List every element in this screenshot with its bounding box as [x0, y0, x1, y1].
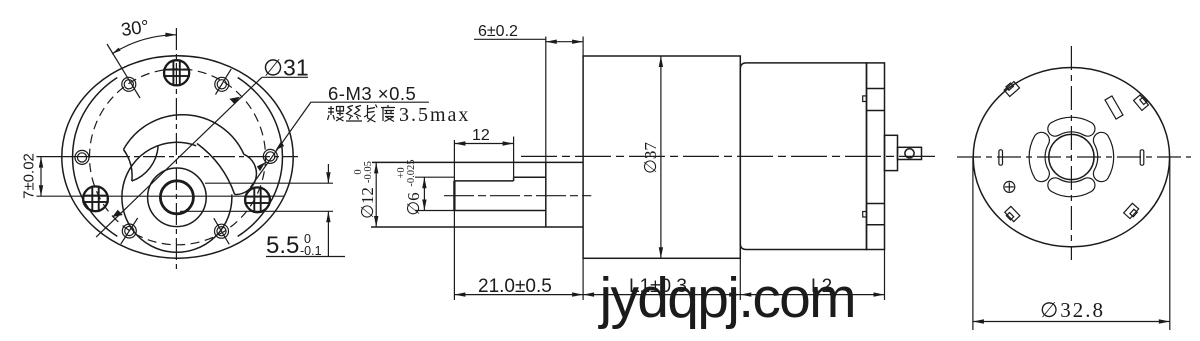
side slot right — [1140, 150, 1144, 165]
hanzi LUO (screw) drawn strokes — [328, 106, 344, 121]
motor end cap — [867, 63, 885, 250]
output shaft D-flat profile — [454, 180, 513, 182]
small screw with cross — [1004, 181, 1015, 192]
svg-text:6±0.2: 6±0.2 — [478, 23, 518, 40]
rim tab upper-left — [1004, 82, 1019, 97]
gearbox body — [583, 56, 740, 258]
side slot left — [999, 150, 1003, 165]
screw hole bottom-right — [214, 218, 229, 244]
svg-text:∅6: ∅6 — [404, 192, 423, 215]
rim tab bottom-right — [1124, 203, 1139, 218]
svg-text:∅31: ∅31 — [263, 55, 309, 81]
horizontal centerline — [957, 156, 1191, 158]
30 deg dimension arc — [112, 35, 176, 54]
bottom dimension extension lines — [582, 258, 584, 300]
dia32.8 extension lines — [972, 158, 974, 330]
screw hole bottom-left — [121, 218, 138, 244]
lower-left cross hole — [83, 186, 108, 211]
vent slot bottom — [1048, 178, 1095, 197]
svg-text:7±0.02: 7±0.02 — [21, 153, 38, 199]
dia32.8 dimension line — [973, 321, 1170, 323]
shaft boss dia12 — [545, 162, 547, 227]
brush bump upper — [863, 96, 867, 102]
shaft boss circle — [148, 168, 207, 227]
screw length note (Chinese) — [328, 105, 396, 123]
6-M3 leader — [250, 102, 311, 188]
shaft horizontal line — [36, 195, 284, 197]
screw hole upper-left — [122, 77, 136, 91]
L1 +-0.3 dimension — [583, 294, 740, 296]
horizontal centerline — [36, 156, 108, 158]
svg-text:∅37: ∅37 — [641, 142, 660, 174]
right claw outer arc — [124, 115, 257, 195]
30 deg radial line — [107, 44, 140, 98]
rim tab bottom-left — [1005, 206, 1020, 221]
5.5 dim extension lines — [205, 182, 333, 184]
svg-text:12: 12 — [472, 127, 490, 144]
screw hole left — [75, 150, 89, 164]
screw hole upper-right — [215, 69, 231, 95]
svg-text:-0.025: -0.025 — [406, 159, 417, 186]
12 dimension — [453, 140, 455, 300]
face groove ring — [122, 142, 232, 252]
hanzi CHANG (length) drawn strokes — [364, 105, 377, 123]
vertical centerline — [1070, 46, 1072, 260]
7 +-0.02 dimension — [40, 157, 42, 197]
6 +-0.2 dimension — [545, 37, 547, 164]
screw hole right — [263, 149, 277, 163]
top screw with cross slot — [164, 60, 189, 85]
rim vent slot top-right — [1105, 96, 1123, 119]
hanzi DU (degree) drawn strokes — [381, 105, 395, 122]
svg-text:30°: 30° — [120, 15, 151, 40]
rim tab top-right small — [1134, 95, 1149, 110]
gearbox inner rim arc right — [238, 78, 283, 237]
terminal block — [885, 135, 898, 170]
right claw inner arc — [197, 144, 235, 195]
bolt circle (dashed) — [90, 69, 266, 245]
hanzi SI (silk) drawn strokes — [346, 106, 362, 122]
svg-text:∅32.8: ∅32.8 — [1040, 298, 1105, 322]
vent slot left — [1029, 132, 1049, 181]
dia37 dimension — [660, 56, 662, 258]
svg-text:3.5max: 3.5max — [399, 104, 470, 126]
lower-right cross hole — [245, 187, 270, 212]
shaft centerline — [444, 195, 591, 197]
brush bump lower — [863, 212, 867, 218]
vertical centerline — [175, 28, 177, 273]
dia12 dimension — [375, 162, 377, 227]
left claw lower edge — [132, 147, 158, 182]
motor can outline — [973, 68, 1169, 247]
dia6 dimension — [415, 176, 454, 178]
gearbox outer flange ellipse — [62, 56, 293, 258]
svg-text:-0.05: -0.05 — [363, 161, 374, 183]
gearbox inner rim arc left — [73, 78, 118, 237]
left claw upper edge — [124, 150, 133, 182]
svg-text:∅12: ∅12 — [358, 187, 377, 219]
21.0 +-0.5 dimension — [454, 294, 583, 296]
terminal spade with hole — [898, 147, 922, 159]
L2 dimension — [740, 294, 884, 296]
svg-text:5.5: 5.5 — [266, 232, 299, 259]
svg-text:21.0±0.5: 21.0±0.5 — [478, 276, 552, 297]
center bearing boss — [1049, 134, 1094, 179]
svg-text:jydqpj.com: jydqpj.com — [598, 266, 855, 330]
svg-text:6-M3 ×0.5: 6-M3 ×0.5 — [328, 83, 416, 104]
motor body — [740, 63, 866, 250]
output shaft hole — [160, 181, 193, 214]
vent slot top — [1048, 117, 1095, 136]
motor centerline — [521, 155, 936, 157]
dia31 leader line — [96, 77, 262, 237]
vent slot right — [1093, 132, 1113, 181]
5.5 dim line and arrows — [327, 164, 329, 183]
